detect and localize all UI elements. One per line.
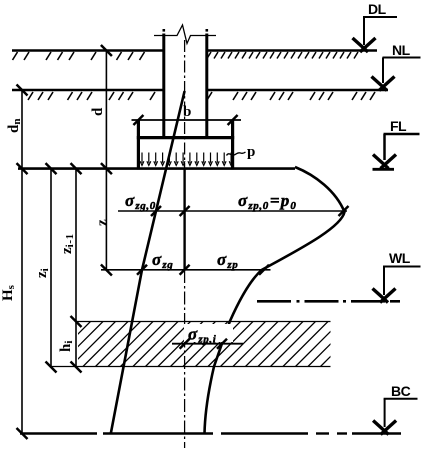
tick at curve crossing — [339, 206, 349, 216]
tick zi-1 top — [71, 163, 82, 174]
tick d bottom / z top — [101, 163, 112, 174]
column left edge — [162, 34, 165, 137]
ground hatch below NL line left — [28, 92, 155, 100]
ground hatch below DL line right (dense) — [207, 52, 358, 59]
column right edge — [205, 34, 208, 137]
tick zi bottom — [46, 362, 57, 373]
column break line — [154, 25, 216, 44]
dimension line dn and Hs (x=22) — [21, 90, 23, 434]
column centre line thick segment (base to z level) — [183, 169, 185, 270]
tick at curve crossing — [259, 265, 269, 275]
z level line (y=269.8) — [101, 269, 271, 271]
svg-text:FL: FL — [390, 118, 407, 134]
label p with leader — [227, 152, 246, 156]
tick hi bottom — [71, 362, 82, 373]
footing slab outline — [137, 120, 234, 170]
column centre line (dash-dot) upper — [184, 40, 186, 169]
tick dn top — [17, 85, 28, 96]
soil layer hatch band — [46, 322, 366, 367]
svg-text:b: b — [183, 104, 191, 120]
dimension line zi (x=51) — [50, 169, 52, 367]
level marker DL — [353, 1, 398, 52]
measurement line sigma zp,i (y=343.7) — [172, 343, 243, 345]
base pressure arrows p — [142, 153, 231, 163]
self-weight stress line sigma-zg — [111, 91, 185, 434]
ground hatch below DL line left — [13, 52, 145, 60]
tick z bottom — [101, 265, 112, 276]
ground line DL level — [12, 49, 377, 52]
dimension line d and z (x=106.4) — [105, 50, 107, 270]
ground hatch below NL line right — [207, 92, 375, 100]
tick b right — [228, 115, 238, 125]
tick b left — [133, 115, 143, 125]
tick at centre line — [180, 206, 190, 216]
tick at sigma-zg crossing — [137, 265, 147, 275]
svg-text:NL: NL — [392, 42, 411, 58]
svg-text:DL: DL — [368, 1, 387, 17]
foundation base line FL — [18, 167, 295, 170]
svg-text:p: p — [247, 144, 255, 160]
tick at centre line — [180, 265, 190, 275]
bottom compression limit line BC — [20, 432, 401, 434]
svg-text:z: z — [95, 219, 111, 226]
level marker NL — [372, 42, 421, 91]
tick d top — [101, 45, 112, 56]
tick dn bottom — [17, 163, 28, 174]
dimension line b — [132, 119, 242, 121]
stress level line at base (y=211) — [118, 210, 347, 212]
additional stress curve sigma-zp — [205, 167, 345, 434]
tick at curve crossing — [217, 339, 227, 349]
tick zi-1 bottom — [71, 316, 82, 327]
svg-text:d: d — [90, 107, 106, 116]
tick at centre line — [180, 339, 190, 349]
dimension line zi-1 (x=76) — [75, 169, 77, 322]
column edge continuation dots above break — [163, 29, 166, 32]
water level dash-dot line WL — [257, 300, 400, 303]
dimension line hi (x=76) — [75, 322, 77, 368]
white backing for sigma zp,i label — [184, 324, 233, 342]
svg-text:WL: WL — [389, 250, 411, 266]
tick Hs bottom — [17, 428, 28, 439]
tick on sigma-zg line crossing — [151, 206, 161, 216]
svg-text:BC: BC — [391, 383, 411, 399]
ground line NL level — [12, 89, 388, 92]
column centre line (dash-dot) lower — [184, 270, 186, 448]
level marker FL — [373, 118, 420, 169]
level marker BC — [373, 383, 417, 435]
tick zi top — [46, 163, 57, 174]
level marker WL — [373, 250, 421, 303]
